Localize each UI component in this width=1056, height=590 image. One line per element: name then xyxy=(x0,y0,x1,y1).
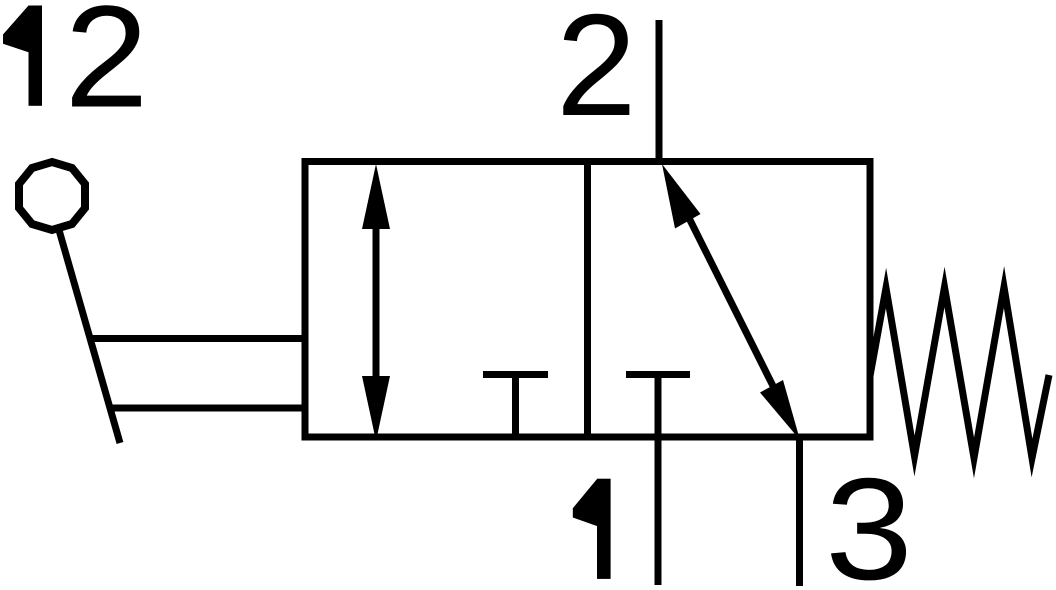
lever upper link xyxy=(90,335,306,342)
double arrow head down xyxy=(362,376,390,441)
position divider xyxy=(584,162,591,438)
diagonal arrow shaft (right position flow path 1-3) xyxy=(680,200,780,400)
port 2 line xyxy=(656,20,663,165)
valve body xyxy=(305,162,870,438)
svg-text:2: 2 xyxy=(556,0,637,146)
svg-text:2: 2 xyxy=(65,0,149,138)
double arrow head up xyxy=(362,164,390,229)
svg-text:3: 3 xyxy=(825,448,913,590)
label 12 (pilot port) : digit 1 xyxy=(3,6,42,106)
label 1 xyxy=(573,479,611,579)
diagonal arrow head bottom xyxy=(760,380,800,440)
return spring xyxy=(870,287,1049,458)
port 3 line xyxy=(796,437,803,586)
lever knob xyxy=(19,162,85,230)
blocked port T left (stem) xyxy=(512,375,519,438)
blocked port T left (bar) xyxy=(483,371,548,378)
port 1 line (stem through body) xyxy=(655,375,662,586)
double arrow shaft (left position flow path) xyxy=(373,210,380,395)
blocked port T right (bar) xyxy=(626,371,690,378)
lever lower link xyxy=(110,405,306,412)
diagonal arrow head top xyxy=(662,164,701,229)
lever arm xyxy=(59,230,120,443)
